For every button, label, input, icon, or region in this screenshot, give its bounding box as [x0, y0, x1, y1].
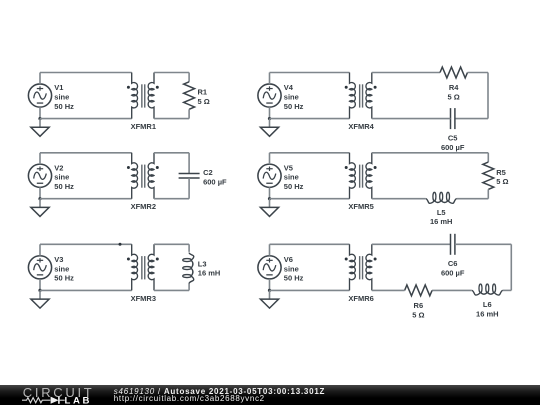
svg-text:600 µF: 600 µF [441, 269, 465, 278]
footer bar [0, 385, 540, 405]
wire V3 top lead [39, 244, 41, 255]
inductor L5 [426, 192, 457, 203]
svg-text:V3: V3 [54, 255, 63, 264]
svg-text:C5: C5 [448, 134, 458, 143]
svg-text:XFMR5: XFMR5 [348, 202, 373, 211]
voltage source V1 [28, 84, 51, 107]
polarity dot XFMR2 secondary [156, 166, 159, 169]
svg-text:16 mH: 16 mH [430, 217, 453, 226]
resistor R5 [483, 153, 494, 199]
wire secondary top loop circuit 1 [154, 72, 189, 74]
wire secondary bottom loop circuit 2 [154, 198, 189, 200]
transformer XFMR3 core [142, 256, 145, 279]
node V6 ground junction [268, 289, 271, 292]
svg-text:50 Hz: 50 Hz [284, 102, 304, 111]
wire right vertical circuit 4 [487, 73, 489, 119]
polarity dot XFMR4 secondary [374, 86, 377, 89]
svg-text:sine: sine [54, 173, 69, 182]
resistor R4 [440, 67, 467, 78]
polarity dot XFMR3 primary [127, 258, 130, 261]
svg-text:5 Ω: 5 Ω [198, 97, 210, 106]
wire bottom XFMR1 primary to V1 [40, 118, 132, 120]
wire V2 bottom lead [39, 187, 41, 198]
transformer XFMR1 core [142, 84, 145, 107]
wire L5 to secondary bottom [372, 198, 426, 200]
wire R4 to right corner [468, 72, 489, 74]
wire top V5 to XFMR5 primary [270, 152, 350, 154]
svg-text:V5: V5 [284, 163, 293, 172]
wire V2 top lead [39, 153, 41, 164]
svg-text:5 Ω: 5 Ω [496, 177, 508, 186]
ground below V1 [31, 119, 49, 137]
wire bottom XFMR5 primary to V5 [270, 198, 350, 200]
wire C5 to secondary bottom [372, 118, 451, 120]
polarity dot XFMR1 primary [127, 86, 130, 89]
svg-text:R4: R4 [449, 83, 459, 92]
wire C6 to right corner [455, 243, 511, 245]
wire secondary bottom loop circuit 1 [154, 118, 189, 120]
node V2 ground junction [38, 197, 41, 200]
svg-text:L6: L6 [483, 300, 492, 309]
svg-text:sine: sine [284, 93, 299, 102]
svg-text:5 Ω: 5 Ω [448, 92, 460, 101]
svg-text:5 Ω: 5 Ω [412, 310, 424, 319]
svg-text:V2: V2 [54, 163, 63, 172]
wire V1 top lead [39, 73, 41, 84]
wire secondary top to C6 [372, 243, 451, 245]
voltage source V6 [258, 256, 281, 279]
ground below V6 [260, 290, 278, 308]
svg-text:sine: sine [54, 264, 69, 273]
inductor L6 [472, 284, 503, 295]
polarity dot XFMR5 primary [345, 166, 348, 169]
svg-text:50 Hz: 50 Hz [54, 274, 74, 283]
transformer XFMR1 secondary winding [148, 73, 154, 119]
footer url text [114, 394, 265, 403]
ground below V2 [31, 199, 49, 217]
svg-text:50 Hz: 50 Hz [54, 182, 74, 191]
svg-text:R5: R5 [496, 168, 506, 177]
svg-text:600 µF: 600 µF [441, 143, 465, 152]
voltage source V2 [28, 164, 51, 187]
CircuitLab logo text [23, 385, 95, 400]
wire bottom XFMR6 primary to V6 [270, 289, 350, 291]
node junction on circuit 3 top wire [119, 243, 122, 246]
svg-text:sine: sine [284, 173, 299, 182]
wire V5 bottom lead [269, 187, 271, 198]
footer title text [114, 387, 325, 396]
transformer XFMR4 primary winding [350, 73, 356, 119]
wire top V6 to XFMR6 primary [270, 243, 350, 245]
inductor L3 [183, 244, 194, 290]
svg-text:V6: V6 [284, 255, 293, 264]
wire bottom right to L6 [503, 289, 512, 291]
wire secondary bottom loop circuit 3 [154, 289, 189, 291]
transformer XFMR6 secondary winding [366, 244, 372, 290]
ground below V4 [260, 119, 278, 137]
wire secondary top loop circuit 2 [154, 152, 189, 154]
svg-text:L5: L5 [437, 208, 446, 217]
transformer XFMR2 secondary winding [148, 153, 154, 199]
wire L6 to R6 [432, 289, 472, 291]
transformer XFMR6 core [360, 256, 363, 279]
svg-text:C6: C6 [448, 259, 458, 268]
polarity dot XFMR4 primary [345, 86, 348, 89]
transformer XFMR3 primary winding [132, 244, 138, 290]
svg-text:16 mH: 16 mH [476, 310, 499, 319]
resistor R1 [184, 73, 195, 119]
polarity dot XFMR1 secondary [156, 86, 159, 89]
transformer XFMR4 secondary winding [366, 73, 372, 119]
svg-text:XFMR1: XFMR1 [131, 122, 156, 131]
transformer XFMR4 core [360, 84, 363, 107]
polarity dot XFMR2 primary [127, 166, 130, 169]
transformer XFMR5 primary winding [350, 153, 356, 199]
svg-text:sine: sine [284, 264, 299, 273]
wire bottom XFMR3 primary to V3 [40, 289, 132, 291]
wire V5 top lead [269, 153, 271, 164]
wire V4 top lead [269, 73, 271, 84]
svg-text:XFMR2: XFMR2 [131, 202, 156, 211]
node V3 ground junction [38, 289, 41, 292]
resistor R6 [405, 285, 432, 296]
wire V3 bottom lead [39, 279, 41, 290]
svg-text:V4: V4 [284, 83, 294, 92]
svg-text:600 µF: 600 µF [203, 177, 227, 186]
svg-text:C2: C2 [203, 168, 213, 177]
transformer XFMR5 secondary winding [366, 153, 372, 199]
svg-text:R6: R6 [414, 301, 424, 310]
wire V6 bottom lead [269, 279, 271, 290]
svg-text:R1: R1 [198, 88, 208, 97]
CircuitLab logo squiggle (resistor + diode) and LAB [22, 396, 94, 406]
node V4 ground junction [268, 117, 271, 120]
voltage source V3 [28, 256, 51, 279]
transformer XFMR6 primary winding [350, 244, 356, 290]
voltage source V5 [258, 164, 281, 187]
polarity dot XFMR5 secondary [374, 166, 377, 169]
polarity dot XFMR3 secondary [156, 258, 159, 261]
svg-text:XFMR3: XFMR3 [131, 294, 156, 303]
wire top V4 to XFMR4 primary [270, 72, 350, 74]
wire secondary top loop circuit 3 [154, 243, 189, 245]
capacitor C5 [451, 108, 455, 129]
capacitor C6 [451, 234, 455, 255]
node V1 ground junction [38, 117, 41, 120]
svg-text:16 mH: 16 mH [198, 269, 221, 278]
transformer XFMR2 core [142, 165, 145, 188]
wire R6 to secondary bottom [372, 289, 405, 291]
node V5 ground junction [268, 197, 271, 200]
wire V4 bottom lead [269, 107, 271, 118]
capacitor C2 [179, 153, 200, 199]
transformer XFMR1 primary winding [132, 73, 138, 119]
svg-text:V1: V1 [54, 83, 63, 92]
transformer XFMR2 primary winding [132, 153, 138, 199]
wire right vertical circuit 6 [510, 244, 512, 290]
polarity dot XFMR6 secondary [374, 258, 377, 261]
svg-text:50 Hz: 50 Hz [284, 274, 304, 283]
transformer XFMR3 secondary winding [148, 244, 154, 290]
voltage source V4 [258, 84, 281, 107]
wire bottom XFMR4 primary to V4 [270, 118, 350, 120]
wire top V1 to XFMR1 primary [40, 72, 132, 74]
svg-text:50 Hz: 50 Hz [284, 182, 304, 191]
wire bottom right to C5 [455, 118, 488, 120]
svg-text:XFMR6: XFMR6 [348, 294, 373, 303]
polarity dot XFMR6 primary [345, 258, 348, 261]
svg-text:50 Hz: 50 Hz [54, 102, 74, 111]
wire bottom XFMR2 primary to V2 [40, 198, 132, 200]
svg-text:XFMR4: XFMR4 [348, 122, 374, 131]
svg-text:sine: sine [54, 93, 69, 102]
ground below V3 [31, 290, 49, 308]
svg-text:L3: L3 [198, 259, 207, 268]
wire secondary top circuit 5 [372, 152, 489, 154]
wire secondary top to R4 [372, 72, 440, 74]
wire bottom right to L5 [457, 198, 489, 200]
wire V1 bottom lead [39, 107, 41, 118]
wire top V2 to XFMR2 primary [40, 152, 132, 154]
transformer XFMR5 core [360, 165, 363, 188]
ground below V5 [260, 199, 278, 217]
wire top V3 to XFMR3 primary [40, 243, 132, 245]
wire V6 top lead [269, 244, 271, 255]
